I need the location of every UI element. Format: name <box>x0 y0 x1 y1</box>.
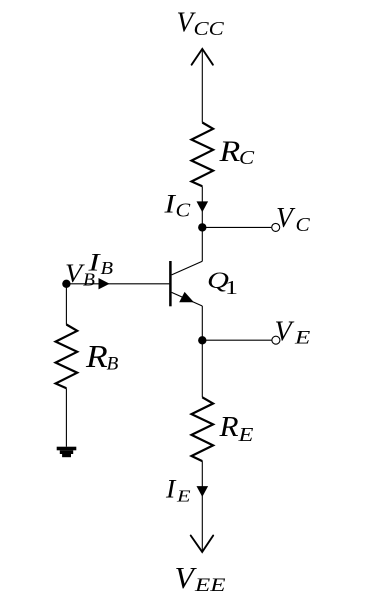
svg-text:B: B <box>101 258 114 278</box>
svg-text:E: E <box>176 486 192 505</box>
svg-text:C: C <box>296 214 311 236</box>
svg-text:C: C <box>176 199 191 221</box>
svg-text:R: R <box>85 339 108 374</box>
svg-text:CC: CC <box>194 18 225 40</box>
svg-text:C: C <box>239 147 254 169</box>
svg-text:V: V <box>175 560 197 592</box>
svg-text:I: I <box>87 247 101 276</box>
svg-text:I: I <box>163 188 176 218</box>
svg-text:R: R <box>218 136 240 168</box>
svg-text:R: R <box>218 411 239 443</box>
svg-text:E: E <box>294 327 311 348</box>
svg-text:V: V <box>276 203 296 234</box>
svg-text:1: 1 <box>225 277 238 299</box>
svg-text:EE: EE <box>194 575 226 592</box>
svg-text:B: B <box>107 353 119 374</box>
svg-text:I: I <box>165 473 177 503</box>
svg-text:E: E <box>237 424 254 446</box>
